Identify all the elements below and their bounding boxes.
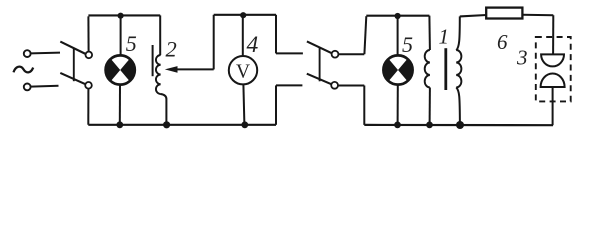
variac tap arrow shaft xyxy=(177,68,214,70)
terminal top xyxy=(24,50,31,57)
svg-text:3: 3 xyxy=(516,46,528,70)
wire riser to bottom rail loop2 xyxy=(363,86,365,125)
svg-text:6: 6 xyxy=(497,30,508,54)
lamp 5 left sector xyxy=(106,59,121,81)
switch2 bottom blade xyxy=(307,74,332,85)
junction dot lamp top xyxy=(118,13,124,19)
resistor 6 box xyxy=(486,8,522,19)
wire bottom terminal to switch xyxy=(31,85,59,88)
bottom rail loop1 xyxy=(88,124,276,126)
wire lamp branch top xyxy=(120,16,122,56)
wire contact to top rail xyxy=(87,16,89,51)
top rail loop3 right xyxy=(522,14,553,16)
wire riser to rail loop2 xyxy=(364,16,366,54)
bottom rail loop2 and loop3 xyxy=(364,124,553,126)
svg-text:1: 1 xyxy=(439,25,450,49)
switch link bar xyxy=(73,48,75,82)
svg-text:2: 2 xyxy=(166,37,177,62)
junction dot variac bottom xyxy=(163,121,170,128)
junction dot primary bottom xyxy=(426,122,433,129)
junction dot voltmeter bottom xyxy=(241,121,248,128)
svg-text:4: 4 xyxy=(247,32,259,58)
wire electrode feed xyxy=(552,15,554,54)
switch top blade xyxy=(60,42,85,54)
wire transformer primary top lead xyxy=(428,16,431,50)
wire variac bottom lead xyxy=(161,94,167,125)
wire variac top lead xyxy=(159,15,161,55)
transformer 1 primary coil xyxy=(425,50,430,88)
wire lamp2 branch top xyxy=(397,16,399,55)
wire bottom rail to switch2 riser xyxy=(275,85,277,124)
wire electrode stem xyxy=(552,87,554,125)
wire transformer primary bottom lead xyxy=(429,88,431,125)
wire lamp2 bottom xyxy=(397,85,399,125)
wire stub switch2 bottom xyxy=(276,84,302,86)
dashed enclosure box xyxy=(536,37,571,101)
wire stub switch2 top xyxy=(276,52,303,54)
switch2 top blade xyxy=(307,41,332,53)
wire switch2 bottom contact right xyxy=(338,85,364,87)
wire top terminal to switch xyxy=(31,52,60,55)
switch bottom blade xyxy=(60,73,85,84)
lamp 5 circle xyxy=(106,55,135,84)
junction dot voltmeter top xyxy=(240,12,246,18)
wire voltmeter bottom xyxy=(243,84,244,124)
junction dot lamp bottom xyxy=(116,121,123,128)
wire voltmeter top xyxy=(242,15,244,56)
switch top contact xyxy=(86,52,93,59)
wire bottom rail left riser xyxy=(87,89,89,125)
AC source tilde xyxy=(14,67,34,73)
switch bottom contact xyxy=(85,82,92,89)
svg-text:5: 5 xyxy=(402,32,413,57)
variac 2 coil xyxy=(156,55,161,94)
wire lamp bottom xyxy=(119,85,121,125)
wire switch2 top contact right xyxy=(338,53,364,55)
terminal bottom xyxy=(24,84,31,91)
junction dot lamp2 top xyxy=(395,13,401,19)
svg-text:V: V xyxy=(236,62,250,83)
top rail loop1 xyxy=(88,14,160,16)
variac core bar xyxy=(152,45,154,76)
wire transformer secondary top lead xyxy=(456,16,460,50)
voltmeter 4 circle xyxy=(229,56,257,84)
wire transformer secondary bottom lead xyxy=(456,87,460,125)
transformer core bar xyxy=(444,48,447,90)
svg-text:5: 5 xyxy=(126,31,137,56)
switch2 link bar xyxy=(319,48,321,82)
wire rail to switch2 top riser xyxy=(275,15,277,54)
switch2 top contact xyxy=(332,51,339,58)
transformer 1 secondary coil xyxy=(456,50,461,88)
electrode 3 top bowl xyxy=(541,54,564,66)
junction dot lamp2 bottom xyxy=(394,122,401,129)
junction dot secondary bottom xyxy=(456,121,464,129)
top rail voltmeter xyxy=(214,14,276,16)
top rail loop3 left xyxy=(460,15,487,16)
lamp2 5 left sector xyxy=(383,59,398,81)
lamp2 5 circle xyxy=(383,55,412,84)
lamp2 5 right sector xyxy=(398,59,413,81)
top rail loop2 xyxy=(366,15,429,17)
wire tap riser xyxy=(213,15,215,70)
lamp 5 right sector xyxy=(120,59,135,81)
electrode 3 bottom dome xyxy=(541,74,565,88)
switch2 bottom contact xyxy=(331,82,338,89)
variac tap arrowhead xyxy=(165,66,178,73)
